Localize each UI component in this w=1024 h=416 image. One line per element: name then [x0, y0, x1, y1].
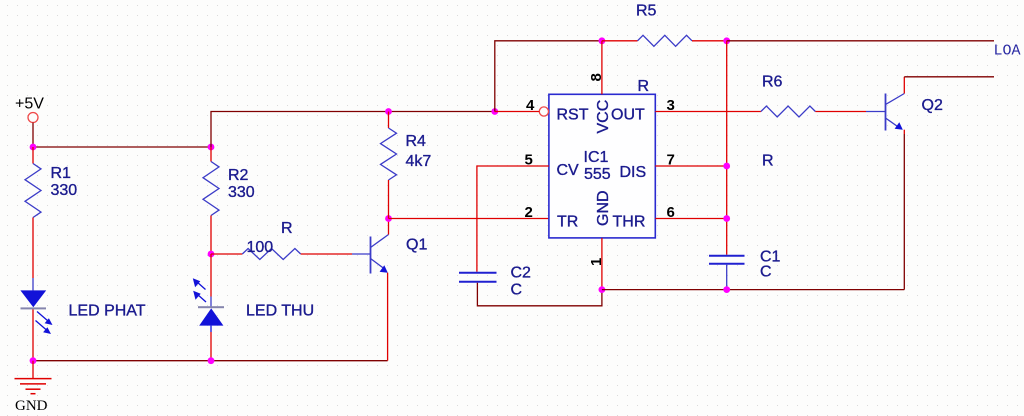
svg-text:5: 5 — [525, 152, 533, 169]
node junction pin8 — [599, 37, 606, 44]
node junction LED PHAT / ground — [30, 357, 37, 364]
node junction R5 right — [723, 37, 730, 44]
resistor R2 — [203, 147, 255, 254]
transistor Q2 — [886, 77, 943, 290]
pin 3 OUT wire — [655, 97, 761, 114]
svg-text:4: 4 — [526, 97, 535, 114]
capacitor C2 — [459, 265, 531, 299]
svg-text:R: R — [281, 220, 293, 237]
svg-text:THR: THR — [613, 214, 646, 231]
pin 8 VCC — [588, 41, 605, 95]
node junction LED THU bottom — [208, 357, 215, 364]
node junction C1 bottom — [723, 286, 730, 293]
svg-text:1: 1 — [588, 258, 605, 266]
resistor R 100 — [211, 220, 371, 260]
svg-text:4k7: 4k7 — [406, 153, 432, 170]
svg-text:LED THU: LED THU — [246, 303, 314, 320]
svg-text:LOA: LOA — [994, 43, 1021, 60]
svg-text:2: 2 — [525, 204, 533, 221]
svg-text:6: 6 — [667, 204, 675, 221]
wire TR net — [389, 218, 549, 220]
svg-text:TR: TR — [557, 214, 578, 231]
node junction at R2 top — [208, 144, 215, 151]
wire DIS/THR vertical rail — [726, 41, 728, 255]
wire +5V rail — [33, 146, 211, 148]
wire bottom-right rail — [602, 289, 904, 291]
node junction at R1 top — [30, 144, 37, 151]
svg-text:+5V: +5V — [15, 96, 44, 113]
pin 6 THR stub — [655, 204, 726, 221]
svg-text:Q1: Q1 — [406, 237, 427, 254]
svg-text:R6: R6 — [762, 74, 783, 91]
resistor R1 — [25, 147, 77, 278]
node junction DIS — [723, 163, 730, 170]
node junction THR — [723, 215, 730, 222]
svg-text:330: 330 — [51, 182, 78, 199]
node junction RST branch — [491, 108, 498, 115]
pin 5 CV wire to C2 — [477, 152, 549, 272]
svg-text:C2: C2 — [511, 265, 532, 282]
wire Q2 collector to LOAD — [904, 76, 994, 78]
svg-text:100: 100 — [247, 239, 274, 256]
svg-text:R1: R1 — [51, 165, 72, 182]
ground — [15, 361, 52, 414]
wire top rail to LOAD — [727, 40, 994, 42]
wire bottom-left ground rail — [33, 360, 388, 362]
svg-text:GND: GND — [595, 190, 612, 226]
svg-text:330: 330 — [228, 184, 255, 201]
svg-text:3: 3 — [667, 97, 675, 114]
svg-text:C: C — [511, 282, 523, 299]
power symbol +5V — [15, 96, 44, 148]
svg-text:R: R — [638, 78, 650, 95]
pin 4 RST — [495, 97, 549, 116]
svg-text:DIS: DIS — [620, 164, 647, 181]
svg-text:R: R — [762, 153, 774, 170]
svg-text:8: 8 — [588, 73, 605, 81]
resistor R4 — [381, 112, 432, 219]
svg-text:RST: RST — [557, 107, 589, 124]
svg-text:7: 7 — [667, 152, 675, 169]
svg-text:Q2: Q2 — [922, 97, 943, 114]
svg-text:GND: GND — [15, 398, 48, 414]
pin 7 DIS stub — [655, 152, 726, 169]
node junction R2 bottom / LED THU / base wire — [208, 251, 215, 258]
svg-text:IC1: IC1 — [584, 149, 609, 166]
svg-text:555: 555 — [584, 166, 611, 183]
LED D1 LED PHAT — [20, 278, 145, 361]
svg-text:LED PHAT: LED PHAT — [69, 303, 146, 320]
svg-text:R2: R2 — [228, 167, 249, 184]
capacitor C1 — [709, 249, 781, 290]
pin 1 GND — [588, 238, 605, 290]
node junction R4 top — [385, 108, 392, 115]
node junction pin1 / C2 — [599, 286, 606, 293]
wire rail to RST — [211, 112, 495, 148]
wire C2 bottom to pin1 — [477, 283, 602, 306]
svg-text:VCC: VCC — [595, 100, 612, 134]
svg-text:R4: R4 — [406, 133, 427, 150]
svg-text:R5: R5 — [636, 3, 657, 20]
transistor Q1 — [371, 219, 428, 361]
op-amp IC1 555 body — [549, 94, 655, 238]
LED D2 LED THU — [193, 254, 314, 361]
wire up to top rail — [495, 41, 602, 112]
node junction Q1 collector / R4 — [385, 215, 392, 222]
resistor R6 — [761, 74, 886, 170]
svg-text:C: C — [760, 264, 772, 281]
resistor R5 — [602, 3, 727, 96]
svg-text:OUT: OUT — [611, 107, 645, 124]
svg-text:CV: CV — [557, 162, 580, 179]
